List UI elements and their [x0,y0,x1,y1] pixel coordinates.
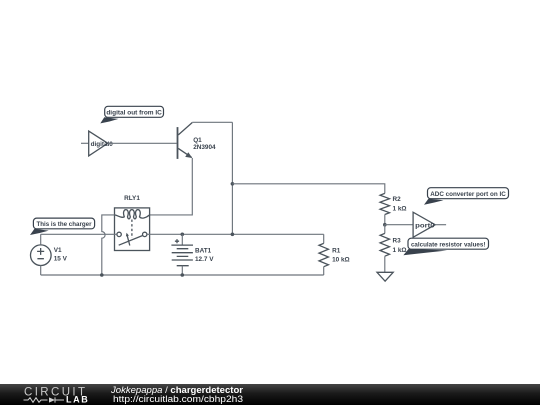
voltage source V1 [31,234,52,275]
resistor R2 [380,193,389,214]
svg-text:2N3904: 2N3904 [193,144,216,151]
net flag port0 [413,212,446,237]
annotation bubble: This is the charger [30,218,95,235]
svg-text:RLY1: RLY1 [124,195,140,202]
annotation bubble: calculate resistor values! [403,238,488,255]
junction battery top [181,233,185,237]
svg-text:V1: V1 [54,247,62,254]
transistor Q1 [177,123,193,159]
svg-text:digital out from IC: digital out from IC [106,110,162,117]
wire node to port flag [385,224,413,226]
wire digital0 to Q1 base [108,142,177,144]
annotation bubble: digital out from IC [100,106,163,123]
wire relay switch right terminal to R1 [147,233,324,235]
annotation bubble: ADC converter port on IC [424,188,509,205]
svg-text:ADC converter port on IC: ADC converter port on IC [430,191,506,198]
wire Q1 emitter to relay coil [150,158,193,215]
resistor R3 [380,225,389,273]
net flag digital0 [81,131,113,156]
svg-text:http://circuitlab.com/cbhp2h3: http://circuitlab.com/cbhp2h3 [113,394,243,404]
junction node at R2 branch [231,182,235,186]
svg-text:LAB: LAB [66,394,89,404]
junction collector rail meets battery rail [231,233,235,237]
wire V1 to relay switch left terminal [41,233,117,235]
junction node R2/R3/port [383,223,387,227]
svg-text:calculate resistor values!: calculate resistor values! [411,242,486,249]
svg-text:digital0: digital0 [91,141,114,148]
wire R2 to node [384,215,386,225]
junction battery bottom [181,273,185,277]
svg-text:R2: R2 [393,196,402,203]
svg-text:This is the charger: This is the charger [37,221,92,228]
svg-text:port0: port0 [415,222,435,229]
battery BAT1 [171,234,193,275]
wire Q1 collector top run [192,121,232,123]
svg-text:1 kΩ: 1 kΩ [393,206,407,213]
wire branch to R2 [232,184,384,194]
svg-text:1 kΩ: 1 kΩ [393,247,407,254]
ground [377,272,393,281]
svg-text:R3: R3 [393,238,402,245]
svg-text:15 V: 15 V [54,255,68,262]
footer bar [0,384,540,405]
logo squiggle wire [24,398,48,403]
junction coil-left on bottom rail [100,273,104,277]
wire collector vertical down [231,122,233,234]
wire relay coil left down to bottom rail (with hop) [102,215,115,275]
svg-text:BAT1: BAT1 [195,248,212,255]
relay RLY1 [115,208,150,251]
svg-text:12.7 V: 12.7 V [195,256,214,263]
bottom rail wire [41,274,324,276]
resistor R1 [319,234,328,275]
svg-text:R1: R1 [332,248,341,255]
logo diode [49,397,55,402]
svg-text:10 kΩ: 10 kΩ [332,257,350,264]
